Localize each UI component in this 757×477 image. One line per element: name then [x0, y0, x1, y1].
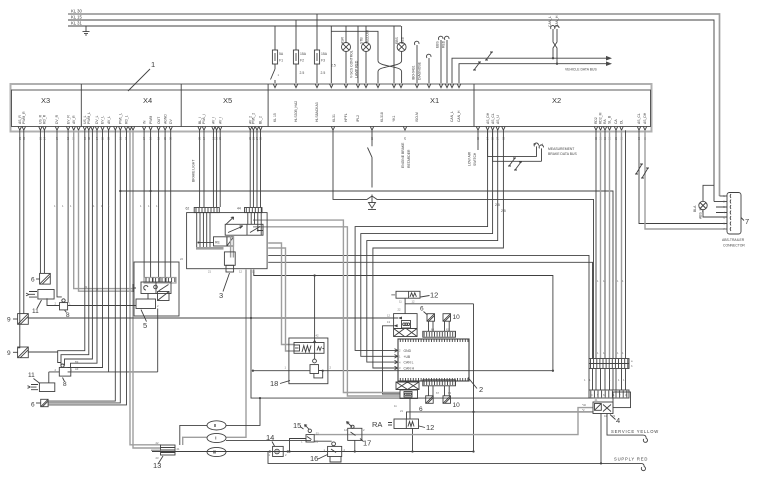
- svg-text:OUT: OUT: [157, 117, 161, 124]
- svg-text:LAMP RED: LAMP RED: [355, 60, 359, 78]
- svg-text:X2: X2: [552, 96, 561, 105]
- svg-text:DL: DL: [620, 120, 624, 124]
- svg-text:AV_L: AV_L: [107, 116, 111, 124]
- svg-text:21: 21: [177, 447, 180, 451]
- svg-text:BRAKE DATA BUS: BRAKE DATA BUS: [548, 152, 577, 156]
- svg-text:PWM_R: PWM_R: [22, 111, 26, 124]
- svg-text:DV_L: DV_L: [95, 115, 99, 124]
- svg-text:IN: IN: [142, 120, 146, 124]
- svg-text:21: 21: [400, 409, 403, 413]
- svg-text:8: 8: [63, 381, 67, 388]
- svg-text:22: 22: [398, 308, 401, 312]
- svg-text:SERVICE YELLOW: SERVICE YELLOW: [611, 429, 659, 434]
- svg-text:22: 22: [316, 432, 319, 436]
- svg-text:AV_R: AV_R: [72, 115, 76, 124]
- svg-text:2.5: 2.5: [331, 64, 336, 68]
- svg-text:PWM: PWM: [149, 116, 153, 124]
- svg-text:KL318: KL318: [380, 112, 384, 122]
- svg-text:SUPPLY RED: SUPPLY RED: [614, 457, 648, 462]
- svg-text:BF: BF: [75, 360, 79, 364]
- svg-text:MEASUREMENT: MEASUREMENT: [548, 147, 574, 151]
- svg-text:12: 12: [430, 291, 438, 300]
- svg-text:IPL2: IPL2: [356, 115, 360, 122]
- svg-text:F3: F3: [321, 59, 325, 63]
- svg-text:GND: GND: [404, 349, 412, 353]
- svg-text:9: 9: [7, 317, 11, 324]
- svg-text:10: 10: [453, 314, 461, 321]
- svg-text:62: 62: [186, 207, 190, 211]
- svg-text:*40: *40: [582, 403, 587, 407]
- svg-text:EV_L: EV_L: [101, 116, 105, 124]
- svg-text:67: 67: [436, 391, 439, 395]
- svg-text:RD_R: RD_R: [43, 114, 47, 124]
- svg-text:I: I: [215, 436, 216, 441]
- svg-text:CA: CA: [614, 119, 618, 124]
- svg-text:42: 42: [316, 334, 319, 338]
- svg-text:63: 63: [448, 391, 451, 395]
- svg-text:3: 3: [219, 291, 223, 300]
- svg-text:5: 5: [143, 321, 147, 330]
- svg-text:KL 15: KL 15: [273, 113, 277, 122]
- svg-text:10: 10: [453, 402, 461, 409]
- svg-text:AV_I: AV_I: [212, 117, 216, 124]
- svg-text:YK1: YK1: [392, 115, 396, 122]
- svg-text:21: 21: [208, 270, 211, 274]
- svg-text:X3: X3: [41, 96, 50, 105]
- svg-text:III: III: [213, 450, 217, 455]
- svg-text:HLS8ACKA3: HLS8ACKA3: [315, 102, 319, 122]
- svg-text:RED: RED: [401, 36, 405, 44]
- svg-text:1: 1: [151, 60, 155, 69]
- svg-text:ISO-M: ISO-M: [415, 112, 419, 122]
- svg-text:BLA: BLA: [693, 205, 697, 212]
- svg-text:KL 31: KL 31: [71, 21, 82, 26]
- svg-text:ABS-TRAILER: ABS-TRAILER: [722, 238, 745, 242]
- svg-text:CAN_L: CAN_L: [450, 111, 454, 122]
- svg-text:2.5: 2.5: [495, 203, 500, 207]
- svg-text:RD_L: RD_L: [124, 115, 128, 124]
- svg-text:12: 12: [387, 314, 390, 318]
- svg-text:EBS: EBS: [395, 36, 399, 44]
- svg-text:8: 8: [66, 312, 70, 319]
- svg-text:12: 12: [239, 270, 242, 274]
- svg-text:12: 12: [412, 300, 415, 304]
- svg-text:EV_R: EV_R: [66, 115, 70, 124]
- svg-text:V-SCS CONTROL: V-SCS CONTROL: [350, 50, 354, 78]
- svg-text:AS_DH: AS_DH: [643, 112, 647, 124]
- svg-text:BRAKE LIGHT: BRAKE LIGHT: [192, 160, 196, 182]
- svg-text:14: 14: [266, 433, 274, 442]
- svg-text:6: 6: [31, 402, 35, 409]
- svg-text:X5: X5: [223, 96, 232, 105]
- svg-text:ASR: ASR: [341, 36, 345, 44]
- svg-text:DV: DV: [169, 119, 173, 124]
- svg-text:BL_I: BL_I: [198, 117, 202, 124]
- svg-text:L: L: [540, 143, 544, 145]
- svg-text:44: 44: [237, 207, 241, 211]
- svg-text:RE: RE: [215, 241, 220, 245]
- svg-text:AF: AF: [75, 367, 79, 371]
- svg-text:KL 30: KL 30: [71, 9, 82, 14]
- svg-text:YELLOW: YELLOW: [366, 29, 370, 44]
- svg-text:AGND: AGND: [163, 114, 167, 124]
- svg-text:DIAGNOSE: DIAGNOSE: [418, 61, 422, 80]
- svg-text:CAN H: CAN H: [404, 367, 415, 371]
- svg-text:23: 23: [156, 456, 159, 460]
- svg-text:X1: X1: [430, 96, 439, 105]
- svg-text:16: 16: [310, 454, 318, 463]
- svg-text:21: 21: [315, 440, 318, 444]
- svg-text:5A: 5A: [279, 52, 284, 56]
- svg-text:HPFL: HPFL: [344, 113, 348, 122]
- svg-text:SL_B: SL_B: [608, 115, 612, 124]
- svg-text:6: 6: [420, 306, 424, 313]
- svg-text:LOW AIR: LOW AIR: [468, 151, 472, 166]
- svg-text:22: 22: [180, 257, 183, 261]
- svg-text:25: 25: [403, 137, 407, 140]
- svg-text:RD2: RD2: [594, 117, 598, 124]
- svg-text:12: 12: [426, 423, 434, 432]
- svg-text:AS_CL: AS_CL: [637, 113, 641, 124]
- svg-text:AS_U: AS_U: [496, 115, 500, 124]
- svg-text:RA: RA: [372, 420, 382, 429]
- svg-text:AV_I: AV_I: [218, 117, 222, 124]
- svg-text:AS_CL: AS_CL: [491, 113, 495, 124]
- svg-text:6: 6: [31, 277, 35, 284]
- svg-text:STB: STB: [360, 37, 364, 44]
- svg-text:9: 9: [7, 350, 11, 357]
- svg-text:CAN_H: CAN_H: [555, 15, 559, 27]
- svg-text:11: 11: [28, 372, 35, 379]
- svg-text:2.5: 2.5: [321, 71, 326, 75]
- svg-text:15: 15: [293, 421, 301, 430]
- svg-text:PWL_I: PWL_I: [202, 114, 206, 124]
- svg-text:11: 11: [32, 308, 39, 315]
- svg-text:6: 6: [419, 406, 423, 413]
- svg-text:RETARDER: RETARDER: [407, 149, 411, 168]
- svg-text:+UB: +UB: [404, 355, 411, 359]
- svg-text:13: 13: [153, 461, 161, 470]
- svg-text:RD2_M: RD2_M: [599, 112, 603, 124]
- svg-text:15A: 15A: [300, 52, 307, 56]
- svg-text:4: 4: [616, 416, 620, 425]
- svg-text:X4: X4: [143, 96, 152, 105]
- svg-text:PWM_L: PWM_L: [87, 112, 91, 124]
- svg-text:PWL_L: PWL_L: [119, 113, 123, 124]
- svg-text:ABS_H: ABS_H: [699, 207, 703, 219]
- svg-text:ENGINE BRAKE: ENGINE BRAKE: [401, 142, 405, 168]
- svg-text:CAN_L: CAN_L: [548, 16, 552, 27]
- svg-text:HLS30B_HA2: HLS30B_HA2: [294, 101, 298, 122]
- svg-text:CAN L: CAN L: [404, 361, 414, 365]
- svg-text:VEHICLE DATA BUS: VEHICLE DATA BUS: [565, 68, 597, 72]
- svg-text:41: 41: [595, 398, 598, 402]
- svg-text:KL31: KL31: [332, 114, 336, 122]
- svg-text:KL 15: KL 15: [71, 15, 82, 20]
- svg-text:IBO-9431: IBO-9431: [412, 65, 416, 80]
- svg-text:DV_R: DV_R: [55, 114, 59, 124]
- svg-text:PWL_2: PWL_2: [252, 113, 256, 124]
- svg-text:AS_DH: AS_DH: [486, 112, 490, 124]
- svg-text:RED: RED: [442, 40, 446, 48]
- svg-text:2: 2: [479, 385, 483, 394]
- svg-text:EBS: EBS: [436, 40, 440, 48]
- svg-text:13: 13: [387, 320, 390, 324]
- svg-text:CONNECTOR: CONNECTOR: [723, 244, 745, 248]
- svg-text:22: 22: [156, 441, 159, 445]
- svg-text:7: 7: [745, 217, 749, 226]
- svg-text:II: II: [214, 423, 216, 428]
- svg-text:2.5: 2.5: [300, 71, 305, 75]
- svg-text:SWITCH: SWITCH: [473, 152, 477, 166]
- svg-text:17: 17: [363, 439, 371, 448]
- svg-text:18: 18: [270, 379, 278, 388]
- svg-text:BL_2: BL_2: [259, 116, 263, 124]
- svg-text:F1: F1: [279, 59, 283, 63]
- svg-text:F2: F2: [300, 59, 304, 63]
- svg-text:12: 12: [344, 428, 347, 432]
- svg-text:CAN_H: CAN_H: [457, 110, 461, 122]
- svg-text:2.5: 2.5: [501, 209, 506, 213]
- svg-text:15A: 15A: [321, 52, 328, 56]
- svg-text:RA: RA: [603, 119, 607, 124]
